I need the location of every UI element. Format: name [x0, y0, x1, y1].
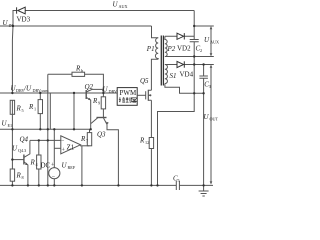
svg-text:7: 7 [86, 139, 88, 144]
svg-text:Q3: Q3 [97, 131, 106, 139]
svg-text:3: 3 [209, 84, 211, 89]
svg-text:IN: IN [9, 23, 13, 28]
svg-text:−: − [52, 175, 56, 181]
svg-text:S1: S1 [170, 72, 177, 80]
svg-text:P1: P1 [146, 45, 155, 53]
svg-text:AUX: AUX [210, 40, 219, 45]
svg-text:12: 12 [145, 140, 149, 145]
svg-text:E1: E1 [8, 123, 13, 128]
svg-text:Z1: Z1 [67, 144, 75, 152]
svg-text:Q4.3: Q4.3 [18, 148, 26, 153]
svg-text:REF: REF [68, 165, 76, 170]
svg-text:8: 8 [22, 175, 24, 180]
svg-text:5: 5 [178, 178, 180, 183]
svg-text:DC: DC [41, 162, 51, 170]
svg-text:VD4: VD4 [180, 71, 194, 79]
svg-text:OUT: OUT [210, 117, 219, 122]
svg-text:5: 5 [22, 108, 24, 113]
svg-text:PWM: PWM [120, 89, 138, 97]
svg-text:2: 2 [200, 48, 202, 53]
svg-text:/U: /U [23, 85, 32, 93]
svg-text:AUX: AUX [119, 4, 128, 9]
svg-text:VD3: VD3 [17, 16, 31, 24]
svg-text:Q2: Q2 [85, 83, 94, 91]
svg-text:Q4: Q4 [20, 136, 29, 144]
svg-text:VD2: VD2 [177, 45, 191, 53]
svg-text:9: 9 [98, 101, 100, 106]
svg-text:Q5: Q5 [140, 77, 149, 85]
svg-text:b: b [81, 68, 83, 73]
svg-text:1: 1 [34, 107, 36, 112]
svg-text:P2: P2 [167, 45, 176, 53]
svg-text:DRV: DRV [109, 89, 118, 94]
